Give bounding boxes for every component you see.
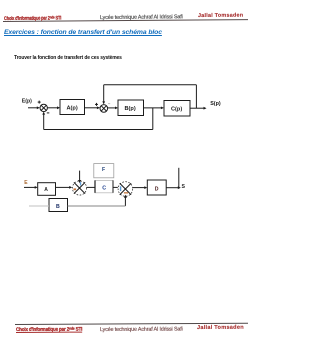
svg-text:A: A (44, 187, 48, 193)
svg-text:D: D (155, 187, 159, 193)
svg-text:E: E (24, 180, 28, 186)
svg-text:A(p): A(p) (67, 106, 78, 112)
svg-text:B(p): B(p) (125, 106, 136, 112)
svg-text:F: F (102, 167, 105, 173)
svg-text:B: B (56, 204, 60, 210)
svg-text:S: S (182, 184, 186, 190)
svg-text:S(p): S(p) (210, 101, 221, 107)
svg-text:C: C (102, 186, 106, 192)
svg-text:E(p): E(p) (22, 98, 32, 104)
svg-text:C(p): C(p) (171, 107, 182, 113)
